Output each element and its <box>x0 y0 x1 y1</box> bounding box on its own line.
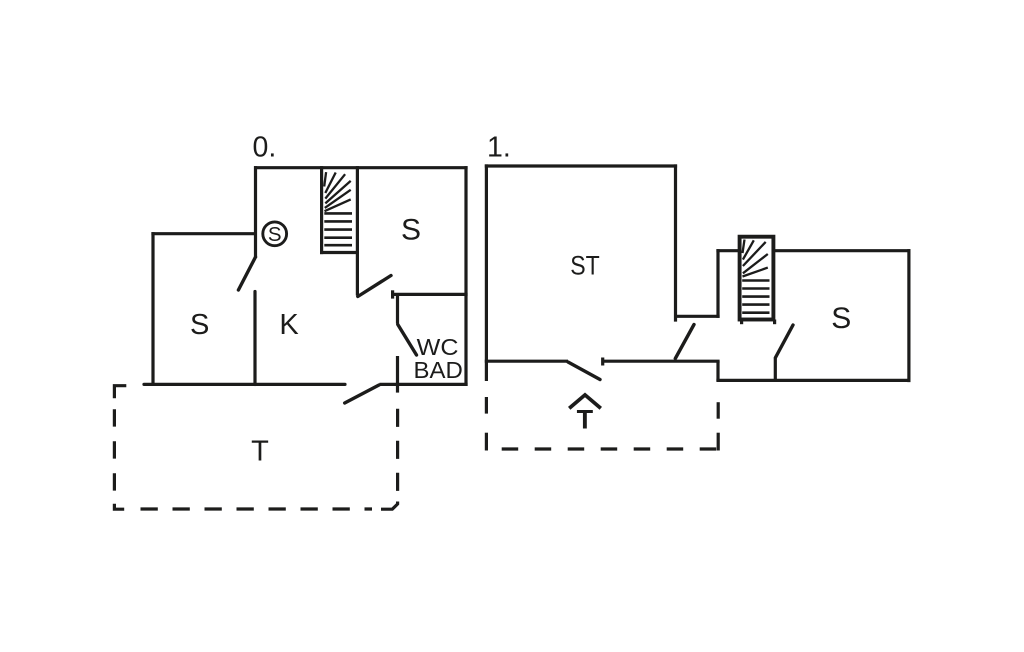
terrace floor1: right dashed edge dash2 <box>717 433 720 451</box>
wall: floor1 ST top <box>485 164 677 167</box>
door leaf: hall door at left wall <box>238 257 255 290</box>
terrace floor0: bottom-left corner dash <box>114 504 124 509</box>
wall: WC top <box>392 293 468 296</box>
door leaf: ST to S passage door <box>675 325 694 359</box>
wall: WC left jamb lower <box>396 356 399 393</box>
wall: floor1 bottom left segment <box>485 360 568 363</box>
door leaf: terrace door floor0 <box>345 385 379 403</box>
svg-text:T: T <box>577 405 594 435</box>
wall: floor0 right <box>464 166 467 386</box>
terrace floor1: right dashed edge dash1 <box>717 402 720 419</box>
wall: floor1 S room right <box>907 249 910 382</box>
wall: floor1 S room top <box>772 249 911 252</box>
svg-text:T: T <box>251 436 269 468</box>
svg-text:K: K <box>279 309 299 341</box>
wall: floor1 ST right <box>674 164 677 321</box>
wall: passage vertical floor1 <box>716 249 719 318</box>
stairs floor0: left border <box>320 166 323 254</box>
wall: stub between ST bottom and S bottom <box>716 361 719 381</box>
tick: floor1 door jamb <box>601 358 604 366</box>
svg-text:BAD: BAD <box>414 357 463 383</box>
wall: WC left upper <box>396 294 399 323</box>
symbol: entrance arrow chevron <box>569 395 601 408</box>
tick: stair1 bottom-left stub <box>740 320 743 325</box>
door leaf: floor1 terrace door <box>568 362 600 380</box>
svg-text:S: S <box>268 223 282 246</box>
wall: floor1 top between passage and stairs <box>716 249 741 252</box>
wall: divider between S and K <box>253 292 256 385</box>
door leaf: S room door floor0 <box>358 276 391 297</box>
terrace floor1: left dashed edge dash2 <box>485 433 488 451</box>
stairs floor0: treads <box>324 213 352 245</box>
wall: floor0 top <box>254 166 468 169</box>
terrace floor1: bottom dashed edge <box>502 447 718 450</box>
wall: floor1 S room bottom <box>716 379 910 382</box>
terrace floor0: bottom-right corner dash <box>381 502 398 510</box>
svg-text:1.: 1. <box>487 131 511 163</box>
terrace floor0: right dashed edge <box>396 409 399 495</box>
svg-text:0.: 0. <box>253 131 277 163</box>
stairs floor1: box <box>740 237 774 320</box>
svg-text:S: S <box>401 214 421 247</box>
terrace floor0: top-left corner dash <box>114 386 126 399</box>
stairs floor0: fan hatch <box>324 172 351 211</box>
wall: floor0 bottom right segment <box>380 383 468 386</box>
svg-text:ST: ST <box>570 250 600 280</box>
stairs floor1: treads <box>742 281 769 313</box>
svg-text:S: S <box>190 309 209 341</box>
wall: floor1 ST left (solid, extends below to terrace corner) <box>485 164 488 381</box>
wall: floor0 left (upper part, ends at door) <box>254 166 257 258</box>
stairs floor1: fan hatch <box>743 240 768 277</box>
wall: floor0 bottom left segment <box>144 383 345 386</box>
symbol: circled S <box>263 222 287 246</box>
terrace floor0: left dashed edge <box>113 409 116 491</box>
tick: WC top wall left end <box>391 290 394 298</box>
wall: left room left <box>151 232 154 385</box>
wall: passage horizontal floor1 <box>674 315 720 318</box>
door leaf: WC door <box>398 325 417 356</box>
wall: stair right / S room left, ends below at door <box>356 166 359 295</box>
wall: floor1 bottom right segment <box>603 360 720 363</box>
terrace floor0: bottom dashed edge <box>141 507 373 510</box>
svg-text:S: S <box>831 302 851 335</box>
tick: stair1 bottom-right stub <box>773 320 776 325</box>
terrace floor1: left dashed edge dash1 <box>485 397 488 414</box>
wall: stub under door floor1 <box>774 358 777 382</box>
stairs floor0: bottom border <box>320 251 359 254</box>
door leaf: stair side door floor1 <box>776 325 794 358</box>
wall: left room top <box>151 232 257 235</box>
